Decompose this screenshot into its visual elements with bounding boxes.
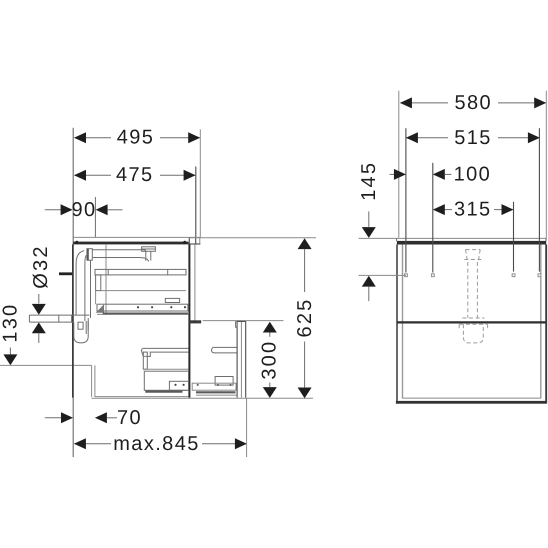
dim 100 <box>390 163 492 185</box>
countertop screw dots <box>75 241 78 244</box>
wall outlet pipe <box>29 315 89 323</box>
dim 145 reference line bottom <box>359 274 406 276</box>
svg-text:475: 475 <box>116 164 154 186</box>
svg-text:515: 515 <box>454 127 492 149</box>
back edge dark line <box>72 244 74 397</box>
upper drawer screw dots <box>137 306 186 308</box>
svg-text:100: 100 <box>454 163 492 185</box>
bottom reference line <box>92 397 313 399</box>
dim max.845 <box>74 433 247 455</box>
divide nub <box>189 320 201 323</box>
svg-text:Ø32: Ø32 <box>30 244 52 288</box>
open drawer side panel <box>212 347 237 353</box>
interior bottom line <box>97 313 189 315</box>
lower drawer bottom box <box>144 371 188 390</box>
dashed drain pipe <box>468 262 478 318</box>
lower drawer rail <box>141 348 188 356</box>
lower drawer mid line <box>143 368 188 370</box>
countertop end hooks <box>397 238 546 241</box>
dim 475 extension line right <box>195 167 197 238</box>
mounting holes <box>405 274 541 277</box>
countertop end cap <box>189 237 201 244</box>
lower drawer screw dots <box>174 384 184 386</box>
cabinet inner side lines <box>402 245 404 399</box>
upper drawer inner bottom line <box>101 290 186 292</box>
horizontal waste pipe <box>93 250 151 262</box>
open drawer front panel <box>236 321 246 397</box>
dim 315 <box>433 199 514 221</box>
cabinet bottom line <box>95 396 189 398</box>
upper drawer back bracket <box>96 275 101 291</box>
svg-text:90: 90 <box>71 199 96 221</box>
dim 580 extension line right <box>545 91 547 241</box>
cabinet left edge <box>396 245 398 404</box>
basin outlet bracket <box>142 247 156 252</box>
dashed trap cup <box>463 324 483 343</box>
svg-text:70: 70 <box>117 407 142 429</box>
cabinet right edge <box>545 245 547 404</box>
lower drawer back bracket <box>143 352 147 369</box>
countertop alignment line <box>189 237 316 239</box>
svg-text:max.845: max.845 <box>113 433 200 455</box>
lower drawer shadow <box>145 391 182 393</box>
trap cup <box>74 318 88 343</box>
svg-text:145: 145 <box>358 161 380 201</box>
dim 580 <box>400 92 546 114</box>
dim 90 <box>45 199 123 221</box>
dashed trap flange <box>459 318 487 329</box>
upper drawer bottom band <box>96 304 188 313</box>
cabinet bottom dark band <box>396 401 546 404</box>
dim 70 <box>45 407 142 429</box>
dim 130 (rotated) <box>0 303 22 366</box>
dim 475 <box>74 164 196 186</box>
countertop top line <box>73 236 200 238</box>
front edge dark line <box>188 244 190 397</box>
open drawer top extension line <box>203 320 284 322</box>
svg-text:580: 580 <box>455 92 493 114</box>
dim Ø32 (rotated) <box>30 244 52 343</box>
svg-text:495: 495 <box>117 127 155 149</box>
dim 515 <box>406 127 540 149</box>
dim 625 (rotated) <box>294 238 316 398</box>
pipe tailpiece connector <box>87 249 92 261</box>
wall extension line <box>72 128 74 457</box>
dim 145 (rotated) <box>358 161 380 301</box>
countertop line right view <box>359 237 547 239</box>
cabinet bottom thin line <box>402 397 541 399</box>
svg-text:130: 130 <box>0 303 22 343</box>
down pipe <box>76 251 90 321</box>
open drawer lower box <box>215 377 233 386</box>
wall bracket stub <box>59 272 73 275</box>
dim 580 extension line left <box>398 91 400 238</box>
svg-text:625: 625 <box>294 298 316 338</box>
dim 300 (rotated) <box>259 322 281 398</box>
interior back line <box>105 245 107 315</box>
upper drawer bracket box <box>165 298 179 302</box>
mounting hole extension lines <box>406 128 540 272</box>
upper drawer rail <box>95 269 186 275</box>
countertop dark band <box>73 242 188 245</box>
dashed funnel <box>464 250 481 262</box>
dim 495 <box>74 127 200 149</box>
svg-text:315: 315 <box>454 199 492 221</box>
dim 495 extension line right <box>199 129 201 237</box>
svg-text:300: 300 <box>259 340 281 380</box>
drawer divide dark line <box>397 321 546 323</box>
siphon zone reference line <box>0 364 92 366</box>
dim max.845 extension line right <box>246 399 248 458</box>
dim 90 extension line right <box>94 197 96 237</box>
front edge companion line <box>194 244 196 321</box>
open drawer bottom lines <box>192 383 237 395</box>
cabinet top dark band <box>397 241 546 245</box>
zone corner verticals <box>91 365 93 397</box>
